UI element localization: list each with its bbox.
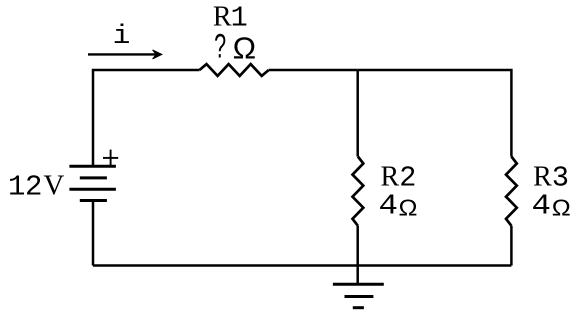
- svg-text:1: 1: [8, 171, 25, 204]
- battery plus sign: [103, 150, 118, 167]
- current arrow i: [88, 50, 162, 59]
- R3 value label 4Ω: [532, 190, 571, 223]
- svg-text:4: 4: [379, 190, 398, 223]
- wire top-middle (R1 to node A): [269, 69, 358, 72]
- R1 value label ?Ω: [214, 28, 256, 66]
- wire top-left (node between battery + and R1): [93, 70, 200, 166]
- svg-text:?: ?: [214, 28, 226, 66]
- resistor R3: [506, 157, 517, 226]
- svg-text:Ω: Ω: [552, 195, 571, 221]
- svg-text:R: R: [533, 161, 552, 192]
- svg-text:2: 2: [25, 171, 42, 204]
- wire R3 bottom to bottom rail: [510, 226, 513, 266]
- R2 value label 4Ω: [379, 190, 418, 223]
- svg-text:2: 2: [399, 161, 416, 194]
- svg-text:i: i: [113, 20, 131, 51]
- wire node A to R2 top: [356, 70, 359, 157]
- svg-text:4: 4: [532, 190, 551, 223]
- svg-text:V: V: [43, 170, 64, 202]
- svg-text:1: 1: [231, 1, 248, 34]
- svg-text:R: R: [381, 161, 400, 192]
- resistor R1: [200, 64, 269, 76]
- wire R2 bottom to bottom rail: [356, 226, 359, 266]
- wire bottom rail: [93, 264, 511, 267]
- wire battery - to bottom rail: [92, 201, 95, 266]
- svg-text:Ω: Ω: [399, 195, 418, 221]
- wire top-right (node A to R3 top): [358, 70, 512, 157]
- ground: [333, 266, 384, 308]
- svg-text:3: 3: [552, 161, 569, 194]
- resistor R2: [353, 157, 364, 226]
- battery V1 plates: [69, 166, 116, 200]
- svg-text:Ω: Ω: [233, 30, 257, 65]
